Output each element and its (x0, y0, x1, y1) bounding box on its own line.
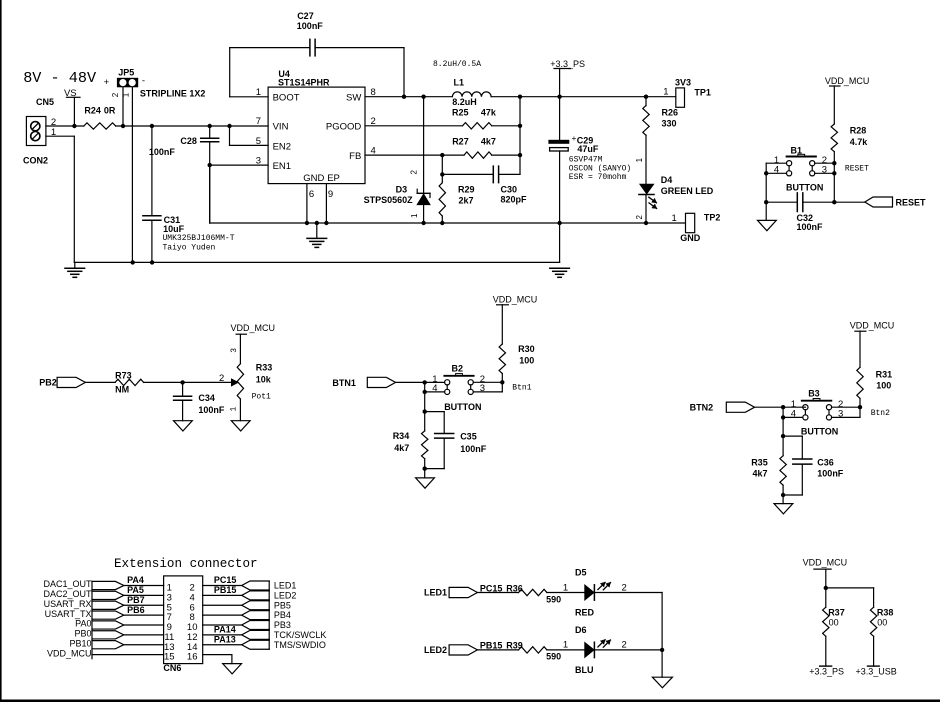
svg-text:2k7: 2k7 (459, 195, 474, 205)
svg-text:1: 1 (635, 157, 644, 162)
svg-text:R34: R34 (393, 431, 410, 441)
svg-text:TMS/SWDIO: TMS/SWDIO (274, 640, 326, 650)
svg-text:0R: 0R (104, 106, 116, 116)
svg-text:EN2: EN2 (273, 141, 291, 152)
svg-text:D5: D5 (575, 568, 587, 578)
svg-text:590: 590 (546, 594, 561, 604)
svg-text:BUTTON: BUTTON (801, 427, 838, 437)
svg-text:STRIPLINE 1X2: STRIPLINE 1X2 (140, 89, 206, 99)
svg-text:4k7: 4k7 (394, 443, 409, 453)
svg-text:100nF: 100nF (198, 405, 225, 415)
svg-text:47k: 47k (481, 108, 497, 118)
svg-text:2: 2 (622, 640, 627, 651)
svg-text:8.2uH: 8.2uH (452, 97, 477, 107)
svg-text:10k: 10k (256, 375, 272, 385)
svg-text:1: 1 (663, 87, 668, 98)
svg-text:L1: L1 (454, 78, 465, 88)
svg-text:PB2: PB2 (39, 377, 57, 387)
svg-text:1: 1 (563, 640, 568, 651)
svg-text:1: 1 (410, 213, 419, 218)
svg-text:SW: SW (346, 93, 361, 104)
svg-text:3: 3 (256, 155, 261, 166)
svg-text:4: 4 (774, 165, 779, 176)
svg-text:LED1: LED1 (424, 587, 447, 597)
svg-text:6: 6 (309, 189, 314, 200)
svg-text:GND: GND (680, 233, 701, 243)
svg-text:PC15: PC15 (480, 583, 503, 593)
svg-text:R28: R28 (850, 125, 867, 135)
svg-text:820pF: 820pF (501, 195, 528, 205)
svg-text:RESET: RESET (845, 165, 869, 174)
svg-text:PB15: PB15 (214, 585, 237, 595)
svg-text:4k7: 4k7 (481, 137, 496, 147)
svg-text:DAC1_OUT: DAC1_OUT (43, 579, 92, 589)
svg-text:R24: R24 (84, 106, 101, 116)
svg-text:BOOT: BOOT (273, 93, 300, 104)
svg-text:VDD_MCU: VDD_MCU (47, 648, 92, 658)
svg-text:1: 1 (672, 213, 677, 224)
svg-text:VDD_MCU: VDD_MCU (803, 558, 848, 568)
svg-text:NM: NM (115, 384, 129, 394)
svg-text:9: 9 (328, 189, 333, 200)
svg-text:JP5: JP5 (118, 68, 134, 78)
svg-text:3V3: 3V3 (675, 78, 691, 88)
svg-text:3: 3 (480, 383, 485, 394)
svg-text:R27: R27 (452, 137, 469, 147)
svg-text:590: 590 (546, 652, 561, 662)
svg-text:5: 5 (256, 136, 261, 147)
svg-text:Extension connector: Extension connector (114, 557, 258, 571)
svg-text:2: 2 (111, 92, 120, 97)
svg-text:C28: C28 (180, 136, 197, 146)
svg-text:TP1: TP1 (694, 88, 711, 98)
svg-text:R36: R36 (506, 583, 523, 593)
svg-text:+3.3_PS: +3.3_PS (550, 59, 585, 69)
svg-text:C36: C36 (817, 458, 834, 468)
svg-text:BUTTON: BUTTON (786, 183, 823, 193)
svg-text:PC15: PC15 (214, 575, 237, 585)
svg-text:TP2: TP2 (704, 213, 721, 223)
svg-text:CON2: CON2 (23, 155, 48, 165)
svg-text:PA13: PA13 (214, 634, 236, 644)
svg-text:47uF: 47uF (577, 144, 599, 154)
svg-text:PB0: PB0 (74, 629, 91, 639)
svg-text:PB10: PB10 (69, 638, 91, 648)
svg-text:3: 3 (838, 408, 843, 419)
svg-text:C35: C35 (460, 432, 477, 442)
svg-text:BTN1: BTN1 (332, 378, 356, 388)
svg-text:D4: D4 (661, 175, 673, 185)
svg-text:R39: R39 (506, 641, 523, 651)
svg-text:B1: B1 (791, 145, 803, 155)
svg-text:VDD_MCU: VDD_MCU (493, 294, 538, 304)
svg-text:STPS0560Z: STPS0560Z (364, 195, 414, 205)
svg-text:+3.3_PS: +3.3_PS (809, 666, 844, 676)
svg-text:4: 4 (791, 408, 796, 419)
svg-text:6SVP47M: 6SVP47M (569, 156, 603, 165)
svg-text:VDD_MCU: VDD_MCU (231, 323, 276, 333)
svg-text:100nF: 100nF (817, 468, 844, 478)
svg-text:16: 16 (187, 652, 198, 663)
svg-text:100nF: 100nF (797, 222, 824, 232)
svg-text:PA5: PA5 (127, 585, 144, 595)
svg-text:Taiyo Yuden: Taiyo Yuden (163, 243, 216, 252)
svg-text:8V - 48V: 8V - 48V (23, 69, 97, 87)
svg-text:00: 00 (829, 618, 839, 628)
svg-text:CN5: CN5 (36, 97, 54, 107)
svg-text:4k7: 4k7 (753, 468, 768, 478)
svg-text:GREEN LED: GREEN LED (661, 186, 714, 196)
svg-text:R38: R38 (877, 608, 894, 618)
svg-text:7: 7 (256, 116, 261, 127)
svg-text:R26: R26 (662, 108, 679, 118)
svg-text:PA4: PA4 (127, 575, 144, 585)
svg-text:330: 330 (662, 118, 677, 128)
svg-text:TCK/SWCLK: TCK/SWCLK (274, 630, 327, 640)
svg-text:VIN: VIN (273, 122, 289, 133)
svg-text:LED2: LED2 (274, 590, 297, 600)
svg-text:100nF: 100nF (460, 444, 487, 454)
svg-text:100: 100 (519, 356, 534, 366)
svg-text:15: 15 (164, 652, 175, 663)
svg-text:UMK325BJ106MM-T: UMK325BJ106MM-T (163, 234, 235, 243)
svg-text:4: 4 (432, 383, 437, 394)
svg-text:DAC2_OUT: DAC2_OUT (43, 589, 92, 599)
svg-text:EP: EP (327, 173, 340, 184)
svg-text:3: 3 (822, 165, 827, 176)
svg-text:B2: B2 (452, 364, 464, 374)
svg-text:100nF: 100nF (297, 21, 324, 31)
svg-text:PB5: PB5 (274, 600, 291, 610)
svg-text:BUTTON: BUTTON (444, 402, 481, 412)
svg-text:BLU: BLU (575, 665, 594, 675)
svg-text:2: 2 (219, 373, 224, 384)
svg-text:OSCON (SANYO): OSCON (SANYO) (569, 164, 631, 173)
svg-text:8.2uH/0.5A: 8.2uH/0.5A (433, 60, 481, 69)
svg-text:GND: GND (303, 173, 324, 184)
svg-text:LED2: LED2 (424, 645, 447, 655)
svg-text:USART_RX: USART_RX (44, 599, 92, 609)
svg-text:R31: R31 (876, 370, 893, 380)
svg-text:Btn1: Btn1 (512, 384, 531, 393)
svg-text:100: 100 (876, 380, 891, 390)
svg-text:100nF: 100nF (149, 147, 176, 157)
svg-text:PB3: PB3 (274, 620, 291, 630)
svg-text:PB7: PB7 (127, 595, 145, 605)
svg-text:00: 00 (877, 618, 887, 628)
svg-text:C34: C34 (198, 393, 215, 403)
svg-text:C30: C30 (501, 185, 518, 195)
svg-text:1: 1 (256, 87, 261, 98)
svg-text:2: 2 (410, 170, 419, 175)
svg-text:PB6: PB6 (127, 605, 145, 615)
svg-text:VDD_MCU: VDD_MCU (825, 76, 870, 86)
svg-text:PB15: PB15 (480, 641, 503, 651)
svg-text:Btn2: Btn2 (871, 409, 890, 418)
svg-text:R29: R29 (458, 184, 475, 194)
svg-text:D6: D6 (575, 625, 587, 635)
svg-text:PA0: PA0 (75, 619, 91, 629)
svg-text:1: 1 (563, 582, 568, 593)
svg-text:R37: R37 (828, 608, 845, 618)
svg-text:FB: FB (349, 151, 361, 162)
svg-text:10uF: 10uF (163, 224, 185, 234)
svg-text:PA14: PA14 (214, 625, 236, 635)
svg-text:R25: R25 (452, 108, 469, 118)
svg-text:RED: RED (575, 608, 595, 618)
svg-text:4.7k: 4.7k (850, 137, 869, 147)
svg-text:-: - (142, 76, 145, 87)
svg-text:PB4: PB4 (274, 610, 291, 620)
svg-text:3: 3 (230, 348, 239, 353)
svg-text:1: 1 (121, 92, 130, 97)
svg-text:2: 2 (635, 215, 644, 220)
svg-text:USART_TX: USART_TX (45, 609, 92, 619)
svg-text:R30: R30 (518, 344, 535, 354)
svg-text:+3.3_USB: +3.3_USB (856, 666, 897, 676)
svg-text:EN1: EN1 (273, 161, 291, 172)
svg-text:1: 1 (229, 407, 238, 412)
svg-text:VDD_MCU: VDD_MCU (850, 320, 895, 330)
svg-text:B3: B3 (808, 389, 820, 399)
svg-text:LED1: LED1 (274, 581, 297, 591)
svg-text:CN6: CN6 (163, 663, 181, 673)
svg-text:BTN2: BTN2 (690, 403, 714, 413)
svg-text:RESET: RESET (896, 197, 927, 207)
svg-text:R33: R33 (256, 363, 273, 373)
svg-text:PGOOD: PGOOD (326, 122, 362, 133)
svg-text:+: + (104, 77, 110, 88)
svg-text:2: 2 (622, 582, 627, 593)
svg-text:R35: R35 (751, 458, 768, 468)
svg-text:ST1S14PHR: ST1S14PHR (278, 77, 330, 87)
svg-text:ESR = 70mohm: ESR = 70mohm (569, 173, 627, 182)
svg-text:D3: D3 (396, 184, 408, 194)
svg-text:Pot1: Pot1 (252, 392, 271, 401)
svg-text:C27: C27 (297, 11, 314, 21)
